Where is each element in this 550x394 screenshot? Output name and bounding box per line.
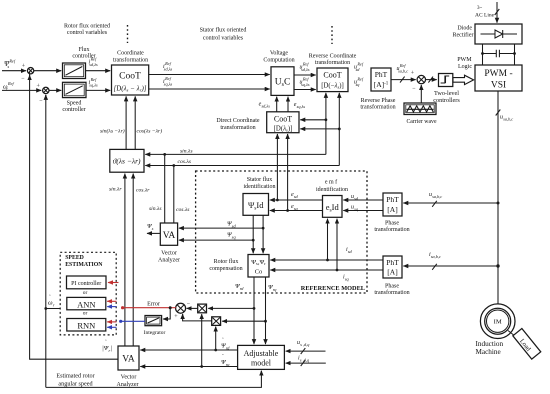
svg-text:Diode: Diode: [457, 26, 472, 32]
svg-text:Integrator: Integrator: [144, 330, 166, 336]
svg-text:cos.λs: cos.λs: [176, 207, 189, 213]
svg-text:PWM: PWM: [457, 57, 472, 63]
svg-text:PhT: PhT: [375, 70, 388, 79]
svg-text:Stator flux oriented: Stator flux oriented: [200, 27, 247, 34]
svg-text:PWM -: PWM -: [484, 69, 512, 79]
svg-text:transformation: transformation: [315, 59, 350, 66]
svg-text:controller: controller: [62, 107, 85, 113]
svg-text:identification: identification: [244, 183, 276, 190]
svg-text:Rectifier: Rectifier: [453, 32, 474, 39]
svg-text:esq: esq: [291, 204, 299, 211]
svg-text:[A]: [A]: [387, 268, 397, 277]
svg-text:sin.λr: sin.λr: [109, 187, 122, 193]
svg-text:Phase: Phase: [385, 221, 399, 227]
svg-text:Machine: Machine: [476, 348, 501, 356]
svg-text:Voltage: Voltage: [270, 51, 289, 57]
svg-text:angular speed: angular speed: [58, 381, 93, 388]
svg-text:Reverse Phase: Reverse Phase: [361, 98, 396, 104]
svg-text:CooT: CooT: [274, 115, 292, 124]
svg-text:Speed: Speed: [67, 101, 82, 107]
svg-text:Reverse Coordinate: Reverse Coordinate: [309, 54, 357, 60]
svg-text:PhT: PhT: [386, 258, 399, 267]
svg-text:e m f: e m f: [325, 179, 337, 186]
svg-text:VA: VA: [163, 231, 176, 241]
svg-text:SPEED: SPEED: [65, 255, 84, 261]
svg-text:esId: esId: [326, 202, 340, 214]
svg-text:VA: VA: [122, 355, 135, 365]
svg-text:sin.λs: sin.λs: [180, 149, 193, 155]
svg-text:Carrier wave: Carrier wave: [406, 119, 437, 125]
svg-text:PI controller: PI controller: [71, 281, 101, 287]
svg-text:controllers: controllers: [433, 97, 460, 104]
svg-text:control variables: control variables: [203, 36, 244, 42]
svg-text:|Ψr|: |Ψr|: [102, 345, 112, 353]
svg-text:Estimated rotor: Estimated rotor: [56, 373, 94, 380]
svg-text:Coordinate: Coordinate: [117, 51, 144, 57]
svg-text:[D(λs − λr)]: [D(λs − λr)]: [113, 85, 146, 93]
svg-text:is ,d,q: is ,d,q: [298, 356, 310, 364]
svg-text:identification: identification: [316, 186, 348, 193]
svg-text:3~: 3~: [477, 6, 483, 11]
svg-text:Logic: Logic: [458, 64, 472, 70]
svg-text:isd: isd: [346, 247, 353, 254]
svg-text:or: or: [83, 311, 88, 317]
svg-text:isq: isq: [343, 275, 350, 282]
svg-text:isa,b,c: isa,b,c: [429, 252, 441, 260]
svg-text:control variables: control variables: [67, 30, 108, 36]
svg-text:PhT: PhT: [386, 195, 399, 204]
svg-text:Induction: Induction: [476, 340, 504, 348]
svg-text:CooT: CooT: [119, 72, 141, 82]
svg-text:compensation: compensation: [209, 266, 242, 272]
svg-text:AC Line: AC Line: [475, 13, 495, 19]
svg-text:Analyzer: Analyzer: [158, 258, 180, 264]
svg-text:transformation: transformation: [220, 124, 255, 131]
svg-text:CooT: CooT: [323, 71, 341, 80]
svg-text:Analyzer: Analyzer: [117, 382, 139, 388]
svg-text:esd: esd: [291, 192, 299, 199]
svg-text:Vector: Vector: [161, 251, 177, 257]
svg-text:ANN: ANN: [77, 300, 95, 310]
svg-text:ϑ(λs −λr): ϑ(λs −λr): [113, 157, 141, 166]
svg-text:usq: usq: [351, 205, 359, 212]
svg-text:Direct Coordinate: Direct Coordinate: [216, 118, 259, 124]
svg-text:Adjustable: Adjustable: [244, 349, 279, 358]
svg-text:ΨsId: ΨsId: [248, 200, 264, 212]
svg-text:Co: Co: [255, 269, 263, 276]
svg-text:Ψs,Ψr: Ψs,Ψr: [251, 259, 266, 266]
svg-text:ESTIMATION: ESTIMATION: [65, 262, 103, 268]
svg-text:Flux: Flux: [78, 47, 89, 53]
svg-text:[D(−λs)]: [D(−λs)]: [321, 83, 344, 90]
svg-text:model: model: [251, 359, 272, 368]
svg-text:cos(λs −λr): cos(λs −λr): [137, 128, 163, 135]
svg-text:sin(λs −λr): sin(λs −λr): [100, 128, 125, 135]
svg-text:cos.λs: cos.λs: [178, 159, 191, 165]
svg-text:REFERENCE MODEL: REFERENCE MODEL: [301, 285, 365, 292]
svg-text:Error: Error: [147, 302, 160, 308]
svg-text:transformation: transformation: [113, 57, 148, 64]
svg-text:sin.λs: sin.λs: [149, 206, 162, 212]
svg-text:IM: IM: [494, 319, 502, 326]
svg-text:Rotor flux: Rotor flux: [214, 258, 239, 265]
svg-text:[D(λs)]: [D(λs)]: [274, 126, 293, 133]
svg-text:Rotor flux oriented: Rotor flux oriented: [64, 23, 110, 30]
svg-text:Two-level: Two-level: [434, 90, 459, 97]
svg-text:Stator flux: Stator flux: [247, 176, 273, 183]
svg-text:[A]: [A]: [387, 205, 397, 214]
svg-text:Phase: Phase: [385, 284, 399, 290]
svg-text:usd: usd: [351, 194, 359, 201]
svg-text:transformation: transformation: [360, 104, 395, 111]
svg-text:cos.λr: cos.λr: [136, 188, 150, 194]
svg-text:+: +: [37, 84, 41, 90]
svg-text:transformation: transformation: [374, 289, 409, 296]
svg-text:VSI: VSI: [491, 81, 506, 91]
svg-text:or: or: [83, 290, 88, 296]
svg-text:Computation: Computation: [263, 58, 294, 64]
svg-text:Vector: Vector: [121, 375, 137, 381]
svg-text:transformation: transformation: [374, 226, 409, 233]
svg-text:RNN: RNN: [77, 321, 95, 331]
